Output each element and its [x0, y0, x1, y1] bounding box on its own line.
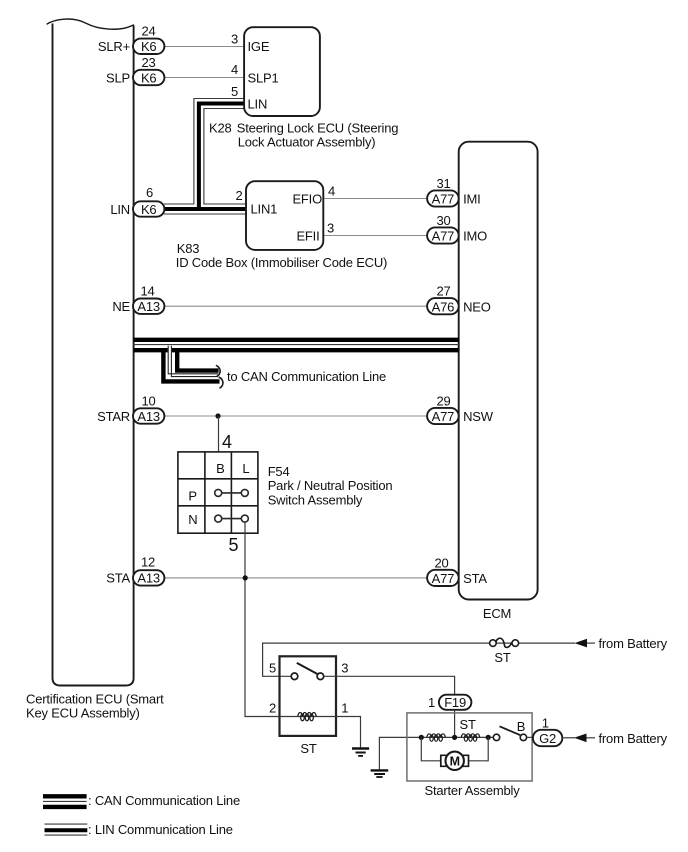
svg-text:27: 27 — [436, 284, 450, 299]
svg-text:ECM: ECM — [483, 606, 511, 621]
svg-text:4: 4 — [231, 62, 238, 77]
svg-text:A13: A13 — [137, 409, 160, 424]
wire switch to G2 — [527, 736, 533, 738]
legend LIN line sample — [45, 824, 88, 835]
svg-text:6: 6 — [146, 185, 153, 200]
wire ground to starter solenoid line — [379, 737, 493, 769]
svg-text:Key ECU Assembly): Key ECU Assembly) — [26, 705, 140, 720]
CAN bus middle thin line — [134, 344, 459, 346]
svg-text:1: 1 — [542, 716, 549, 731]
CAN branch tip arcs — [216, 365, 223, 388]
svg-text:IMO: IMO — [463, 229, 487, 244]
svg-text:K28: K28 — [209, 121, 232, 136]
connector A77 pin 20 (STA) — [427, 555, 487, 586]
svg-text:N: N — [188, 512, 197, 527]
CAN bus bottom thick line — [134, 348, 459, 352]
svg-text:A76: A76 — [432, 299, 455, 314]
starter solenoid coil 1 — [427, 734, 445, 742]
starter switch blade — [500, 726, 521, 735]
svg-text:LIN1: LIN1 — [251, 202, 278, 217]
wire relay pin 5 up and right to fuse ST / battery — [263, 643, 575, 676]
ECM box — [459, 142, 538, 600]
wire F19 down into starter — [454, 710, 456, 738]
connector A13 pin 12 (STA) — [106, 555, 164, 586]
junction dot on STA wire — [243, 575, 248, 580]
junction dot starter middle (F19) — [452, 735, 457, 740]
svg-text:NSW: NSW — [463, 409, 494, 424]
svg-text:K6: K6 — [141, 39, 157, 54]
svg-text:P: P — [188, 489, 196, 504]
svg-text:NEO: NEO — [463, 299, 491, 314]
svg-text:1: 1 — [428, 695, 435, 710]
connector K6 pin 23 (SLP) — [106, 55, 164, 85]
wire NE: A13 14 to ECM A76 27 NEO — [164, 305, 427, 307]
connector A13 pin 10 (STAR) — [97, 393, 164, 424]
label F54 Park / Neutral Position Switch Assembly — [268, 464, 393, 507]
svg-text:F19: F19 — [444, 695, 466, 710]
junction dot on STAR wire — [215, 413, 220, 418]
svg-text:3: 3 — [231, 32, 238, 47]
relay switch contacts — [291, 673, 324, 680]
svg-text:Lock Actuator Assembly): Lock Actuator Assembly) — [238, 135, 376, 150]
svg-text:SLP: SLP — [106, 70, 130, 85]
wire relay pin 3 to F19 — [324, 676, 455, 694]
motor branch wires — [421, 737, 441, 760]
starter switch contacts — [493, 734, 526, 740]
svg-text:20: 20 — [434, 555, 448, 570]
svg-text:5: 5 — [229, 535, 239, 555]
wire STAR: A13 10 to ECM A77 29 NSW — [164, 415, 427, 417]
LIN wire thin outlines (K6 6 to K83 LIN1 and branch up to K28 LIN) — [164, 99, 246, 215]
svg-text:23: 23 — [141, 55, 155, 70]
F54 cell letters B L P N — [188, 461, 249, 527]
svg-text:from Battery: from Battery — [599, 731, 668, 746]
svg-text:: CAN Communication Line: : CAN Communication Line — [88, 793, 240, 808]
svg-text:30: 30 — [436, 213, 450, 228]
svg-text:STAR: STAR — [97, 409, 130, 424]
Certification ECU box (Smart Key ECU Assembly) — [47, 19, 134, 685]
svg-text:Certification ECU (Smart: Certification ECU (Smart — [26, 691, 164, 706]
connector A76 pin 27 (NEO) — [427, 284, 491, 315]
svg-text:A13: A13 — [137, 299, 160, 314]
CAN branch white-cored line crossing — [170, 346, 218, 376]
CAN bus top thick line — [134, 338, 459, 342]
junction dot starter right — [486, 735, 491, 740]
svg-text:Steering Lock ECU (Steering: Steering Lock ECU (Steering — [237, 121, 399, 136]
junction dot starter left — [419, 735, 424, 740]
starter solenoid coil 2 — [461, 734, 479, 742]
relay ST box — [280, 656, 337, 736]
label Certification ECU — [26, 691, 164, 720]
starter motor M — [441, 752, 469, 770]
svg-text:Switch Assembly: Switch Assembly — [268, 492, 363, 507]
svg-text:29: 29 — [436, 393, 450, 408]
svg-text:SLR+: SLR+ — [98, 39, 130, 54]
F54 P row contacts — [215, 489, 249, 496]
connector A77 pin 31 (IMI) — [427, 176, 480, 207]
wire EFII: K83 pin 3 to ECM A77 30 IMO — [323, 235, 427, 237]
svg-text:1: 1 — [341, 700, 348, 715]
svg-text:IMI: IMI — [463, 192, 480, 207]
svg-text:A77: A77 — [432, 229, 455, 244]
svg-text:4: 4 — [222, 432, 232, 452]
svg-text:: LIN Communication Line: : LIN Communication Line — [88, 822, 233, 837]
wire from F54 pin 5 down through STA junction to relay pin 2 — [245, 522, 280, 716]
svg-text:LIN: LIN — [110, 202, 130, 217]
ground (starter) — [371, 770, 389, 777]
relay coil loops — [298, 712, 316, 720]
svg-text:10: 10 — [141, 393, 155, 408]
arrow from Battery (lower) — [562, 731, 667, 746]
wire SLP: K6 23 to K28 pin 4 — [164, 77, 244, 79]
label K83 ID Code Box — [176, 241, 387, 270]
svg-text:31: 31 — [436, 176, 450, 191]
svg-text:14: 14 — [140, 283, 154, 298]
connector A77 pin 30 (IMO) — [427, 213, 487, 244]
K28 Steering Lock ECU box — [244, 27, 320, 116]
svg-text:K6: K6 — [141, 70, 157, 85]
K83 ID Code Box — [246, 181, 323, 250]
wire STA: A13 12 to ECM A77 20 STA — [164, 577, 427, 579]
wire IGE: K6 24 to K28 pin 3 — [164, 46, 244, 48]
arrow from Battery (upper) — [575, 636, 668, 651]
fuse ST — [490, 638, 519, 647]
svg-text:F54: F54 — [268, 464, 290, 479]
svg-text:IGE: IGE — [248, 39, 270, 54]
CAN branch inner thick L — [177, 351, 218, 371]
connector K6 pin 24 (SLR+) — [98, 24, 164, 55]
CAN branch outer thick L — [163, 349, 219, 382]
svg-text:NE: NE — [112, 299, 130, 314]
svg-text:ST: ST — [494, 650, 510, 665]
relay coil wire — [280, 716, 337, 718]
svg-text:G2: G2 — [539, 731, 556, 746]
svg-text:A77: A77 — [432, 192, 455, 207]
wire from STAR junction down to F54 pin 4 — [218, 416, 220, 452]
connector A77 pin 29 (NSW) — [427, 393, 494, 424]
svg-text:A13: A13 — [137, 571, 160, 586]
svg-text:ST: ST — [460, 717, 476, 732]
svg-text:LIN: LIN — [248, 96, 268, 111]
connector K6 pin 6 (LIN) — [110, 185, 164, 217]
svg-text:EFII: EFII — [296, 228, 319, 243]
svg-text:L: L — [242, 461, 249, 476]
svg-text:M: M — [450, 755, 460, 769]
svg-text:K83: K83 — [177, 241, 200, 256]
svg-text:EFIO: EFIO — [292, 191, 322, 206]
svg-text:SLP1: SLP1 — [248, 70, 279, 85]
svg-text:A77: A77 — [432, 571, 455, 586]
svg-text:B: B — [216, 461, 224, 476]
svg-text:3: 3 — [327, 221, 334, 236]
relay switch blade — [297, 663, 318, 674]
svg-text:5: 5 — [231, 84, 238, 99]
svg-text:5: 5 — [269, 661, 276, 676]
ground (relay pin 1) — [352, 749, 369, 756]
svg-text:B: B — [517, 719, 525, 734]
connector F19 pin 1 — [428, 695, 471, 710]
svg-text:4: 4 — [328, 184, 335, 199]
svg-text:ST: ST — [300, 741, 316, 756]
svg-text:K6: K6 — [141, 202, 157, 217]
svg-text:Park / Neutral Position: Park / Neutral Position — [268, 478, 393, 493]
svg-text:A77: A77 — [432, 409, 455, 424]
svg-text:from Battery: from Battery — [599, 636, 668, 651]
wire relay pin 1 to ground — [336, 717, 361, 748]
starter assembly box — [407, 713, 532, 781]
svg-text:24: 24 — [141, 24, 155, 39]
F54 N row contacts — [215, 515, 249, 522]
svg-text:2: 2 — [269, 700, 276, 715]
svg-text:3: 3 — [341, 661, 348, 676]
connector A13 pin 14 (NE) — [112, 283, 164, 314]
connector G2 pin 1 — [533, 716, 562, 747]
svg-text:12: 12 — [141, 555, 155, 570]
F54 Park/Neutral switch grid — [178, 452, 258, 533]
svg-text:2: 2 — [235, 188, 242, 203]
svg-text:Starter Assembly: Starter Assembly — [424, 783, 520, 798]
svg-text:to CAN Communication Line: to CAN Communication Line — [227, 369, 386, 384]
svg-text:STA: STA — [106, 571, 130, 586]
LIN wire thick core — [164, 104, 246, 210]
label K28 Steering Lock ECU — [209, 121, 398, 150]
svg-text:ID Code Box (Immobiliser Code: ID Code Box (Immobiliser Code ECU) — [176, 255, 387, 270]
svg-text:STA: STA — [463, 571, 487, 586]
wire EFIO: K83 pin 4 to ECM A77 31 IMI — [323, 198, 427, 200]
legend CAN line sample — [43, 796, 87, 807]
